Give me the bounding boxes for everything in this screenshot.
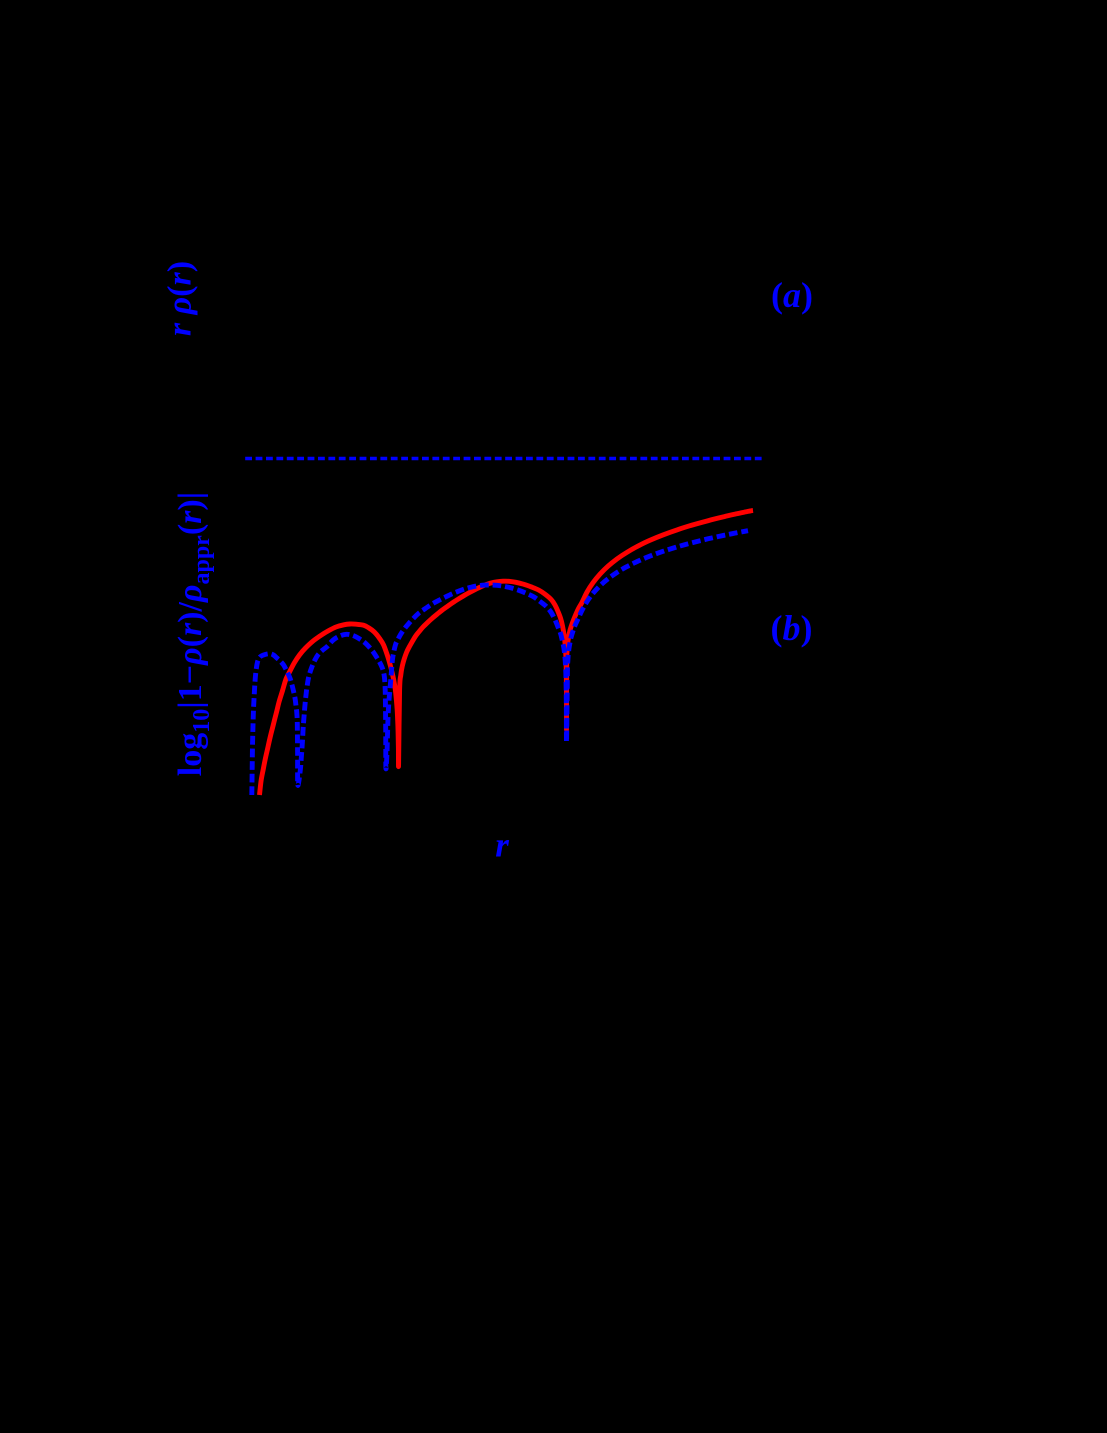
svg-text:log10|1−ρ(r)/ρappr(r)|: log10|1−ρ(r)/ρappr(r)| bbox=[172, 492, 215, 776]
svg-text:r ρ(r): r ρ(r) bbox=[162, 261, 199, 336]
svg-text:(a): (a) bbox=[771, 275, 813, 315]
svg-text:r: r bbox=[495, 826, 509, 865]
svg-text:(b): (b) bbox=[771, 608, 813, 648]
